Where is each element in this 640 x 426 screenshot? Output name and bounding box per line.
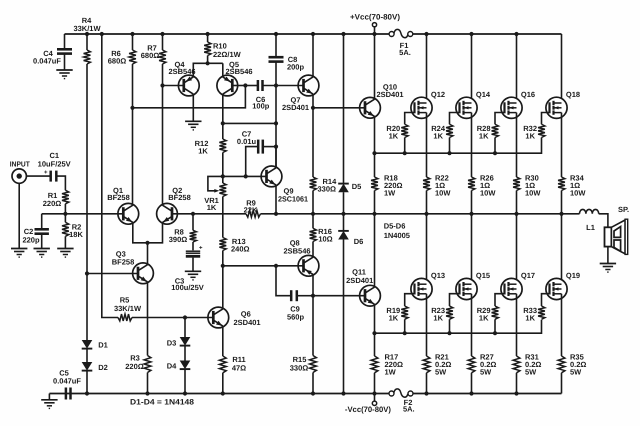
node Q10 base tap: [311, 106, 315, 110]
svg-text:220p: 220p: [22, 236, 40, 245]
resistor R22: [426, 176, 428, 178]
node top rail junctions: [85, 32, 89, 36]
svg-text:BF258: BF258: [112, 257, 135, 266]
svg-text:10Ω: 10Ω: [318, 235, 332, 244]
transistor Q10: [360, 97, 381, 118]
wire R24 to bus: [449, 138, 451, 154]
wire C4 riser: [64, 34, 66, 48]
capacitor C4: [64, 48, 66, 49]
wire R29 to bus: [494, 319, 496, 333]
wire C7 right stub: [263, 146, 276, 148]
resistor R14: [312, 176, 314, 178]
svg-text:+: +: [199, 245, 203, 251]
svg-text:Q16: Q16: [521, 90, 535, 99]
node Q5 base junction: [243, 83, 247, 87]
svg-text:5W: 5W: [435, 367, 447, 376]
svg-text:10W: 10W: [435, 189, 451, 198]
node input divider junction: [63, 212, 67, 216]
wire jack shield down: [18, 183, 20, 248]
MOSFET Q19: [546, 278, 567, 299]
node bottom gate bus taps: [403, 331, 407, 335]
wire VR1 to R13: [222, 197, 224, 238]
capacitor C6: [257, 80, 260, 91]
MOSFET Q14: [456, 97, 477, 118]
wire Q18 gate lead: [542, 113, 550, 125]
node emitter join: [145, 241, 149, 245]
wire Q1 emitter: [133, 222, 148, 242]
transistor Q4: [178, 75, 199, 96]
connector INPUT jack: [12, 169, 26, 183]
svg-text:1K: 1K: [198, 147, 208, 156]
svg-text:BF258: BF258: [168, 193, 191, 202]
wire VR1 wiper: [208, 176, 223, 190]
svg-text:22Ω/1W: 22Ω/1W: [213, 50, 242, 59]
resistor R6: [132, 34, 134, 50]
wire Q14 gate lead: [450, 113, 460, 125]
wire Q2 emitter: [148, 222, 163, 242]
wire Q11 base line: [313, 295, 365, 297]
svg-text:0.047uF: 0.047uF: [53, 376, 81, 385]
node +Vcc terminal: [374, 27, 376, 34]
resistor R3: [147, 282, 149, 356]
svg-text:1K: 1K: [479, 313, 489, 322]
node Q8 base junction: [221, 264, 225, 268]
svg-text:2SD401: 2SD401: [376, 90, 403, 99]
ground speaker ground: [600, 263, 616, 265]
wire Q2 collector: [162, 86, 164, 206]
transistor Q8: [298, 255, 319, 276]
svg-text:D5: D5: [352, 182, 362, 191]
svg-text:Q18: Q18: [566, 90, 580, 99]
node output bus junctions: [274, 212, 278, 216]
diode D2: [82, 362, 93, 371]
svg-text:D5-D6: D5-D6: [384, 222, 406, 231]
svg-text:2SB546: 2SB546: [283, 247, 310, 256]
svg-text:1W: 1W: [385, 367, 397, 376]
svg-text:18K: 18K: [69, 230, 83, 239]
diode D3: [180, 337, 191, 346]
resistor R7: [162, 34, 164, 50]
capacitor C8: [275, 56, 277, 59]
transistor Q11: [360, 285, 381, 306]
MOSFET Q16: [501, 97, 522, 118]
wire D6 column top: [343, 214, 345, 231]
wire Q19 drain: [561, 214, 563, 284]
wire top gate bus: [375, 138, 542, 154]
wire Q19 source: [561, 294, 563, 356]
svg-text:0.047uF: 0.047uF: [33, 57, 61, 66]
MOSFET Q12: [411, 97, 432, 118]
svg-text:Q19: Q19: [566, 271, 580, 280]
node R10 bottom: [206, 61, 210, 65]
node C9 left junction: [274, 264, 278, 268]
wire D2 to bottom rail: [86, 371, 88, 394]
resistor R10: [207, 34, 209, 42]
node top gate bus taps: [403, 151, 407, 155]
ground Q4 ground: [185, 120, 201, 122]
ground R2 ground: [57, 248, 73, 250]
transistor Q5: [217, 75, 238, 96]
wire R28 to bus: [494, 138, 496, 154]
wire Q5 collector mirror line: [133, 86, 246, 108]
node Q9 base junction: [244, 174, 248, 178]
svg-text:5W: 5W: [570, 367, 582, 376]
transistor Q2: [157, 203, 178, 224]
node VR1 top: [221, 174, 225, 178]
node R21 bottom: [424, 391, 428, 395]
svg-text:1K: 1K: [525, 131, 535, 140]
svg-text:33K/1W: 33K/1W: [73, 24, 101, 33]
svg-text:680Ω: 680Ω: [141, 51, 160, 60]
wire C7 left leg: [246, 147, 258, 177]
svg-text:2SD401: 2SD401: [234, 318, 261, 327]
transistor Q3: [133, 263, 154, 284]
node Q11 base junction: [311, 294, 315, 298]
svg-text:680Ω: 680Ω: [108, 57, 127, 66]
wire jack to C1: [26, 175, 50, 177]
svg-text:5A.: 5A.: [403, 405, 415, 414]
svg-text:330Ω: 330Ω: [318, 184, 337, 193]
resistor R11: [222, 355, 224, 357]
MOSFET Q15: [456, 278, 477, 299]
resistor R30: [516, 176, 518, 178]
svg-text:1N4005: 1N4005: [384, 231, 410, 240]
svg-text:2SB546: 2SB546: [168, 67, 195, 76]
resistor R27: [471, 355, 473, 357]
svg-text:1K: 1K: [433, 131, 443, 140]
wire Q5 collector down: [222, 94, 224, 139]
wire output bus right: [261, 213, 580, 215]
svg-text:10W: 10W: [570, 189, 586, 198]
wire Q9 base: [223, 175, 267, 177]
wire Q13 gate lead: [405, 294, 415, 306]
node D3 junction: [183, 315, 187, 319]
svg-text:100u/25V: 100u/25V: [171, 283, 204, 292]
wire Q18 source: [561, 113, 563, 177]
wire Q12 source: [426, 113, 428, 177]
transistor Q1: [118, 203, 139, 224]
node Q7 base junction: [274, 83, 278, 87]
diode D4: [180, 361, 191, 370]
svg-text:Q15: Q15: [476, 271, 490, 280]
wire C8 down bus: [275, 63, 277, 167]
wire Q19 gate lead: [542, 294, 550, 306]
svg-text:200p: 200p: [287, 62, 305, 71]
svg-text:1W: 1W: [384, 189, 396, 198]
resistor R23: [446, 306, 453, 319]
svg-text:1K: 1K: [479, 131, 489, 140]
svg-text:1K: 1K: [525, 313, 535, 322]
capacitor C2: [41, 228, 43, 229]
wire Q13 drain: [426, 214, 428, 284]
svg-text:220Ω: 220Ω: [43, 199, 62, 208]
resistor R4: [86, 34, 88, 50]
node Q3 base junction: [85, 271, 89, 275]
potentiometer VR1: [219, 183, 226, 197]
svg-text:1K: 1K: [389, 131, 399, 140]
wire Q16 gate lead: [495, 113, 505, 125]
inductor L1: [580, 209, 599, 213]
resistor R31: [516, 355, 518, 357]
wire Q9 collector: [275, 147, 277, 168]
wire Q11 collector: [374, 214, 376, 287]
wire D3-D4: [184, 346, 186, 361]
node R12 top tap: [221, 121, 225, 125]
wire output bus: [172, 213, 246, 215]
wire R7 to Q4 base: [163, 85, 184, 87]
svg-text:2SD401: 2SD401: [282, 103, 309, 112]
svg-text:Q17: Q17: [521, 271, 535, 280]
svg-text:390Ω: 390Ω: [169, 235, 188, 244]
resistor R18: [374, 176, 376, 178]
wire R23 to bus: [449, 319, 451, 333]
svg-text:+Vcc(70-80V): +Vcc(70-80V): [350, 12, 400, 21]
node VR1 wiper arrow: [214, 189, 219, 193]
svg-text:SP.: SP.: [618, 205, 629, 214]
wire to C6: [245, 85, 257, 87]
svg-text:D2: D2: [98, 363, 108, 372]
svg-text:220Ω: 220Ω: [125, 362, 144, 371]
wire Q15 drain: [471, 214, 473, 284]
wire R12 to VR1: [222, 153, 224, 184]
wire D3 riser: [184, 318, 186, 338]
resistor R13: [219, 238, 226, 251]
wire C9 left leg: [276, 266, 290, 296]
resistor R20: [401, 124, 408, 137]
wire R5 column: [102, 34, 118, 318]
wire C8 riser: [275, 34, 277, 57]
wire L1 to speaker: [599, 214, 608, 228]
wire node to C2: [42, 213, 66, 215]
svg-text:2SB546: 2SB546: [225, 67, 252, 76]
svg-text:100p: 100p: [252, 101, 270, 110]
wire Q3 base: [87, 273, 138, 275]
fuse F2: [389, 391, 394, 396]
svg-text:560p: 560p: [287, 312, 305, 321]
wire Q8 base: [223, 265, 303, 267]
svg-text:10uF/25V: 10uF/25V: [38, 159, 71, 168]
node R8 tap: [191, 212, 195, 216]
svg-text:D3: D3: [167, 339, 177, 348]
svg-text:1K: 1K: [433, 313, 443, 322]
wire C1 to R1: [56, 176, 65, 190]
wire C6 to Q7 base: [263, 85, 304, 87]
resistor R17: [374, 355, 376, 357]
resistor R16: [312, 214, 314, 229]
svg-text:D4: D4: [167, 362, 177, 371]
svg-text:47Ω: 47Ω: [232, 364, 246, 373]
svg-text:10W: 10W: [525, 189, 541, 198]
node C7 right junction: [274, 145, 278, 149]
diode D6: [338, 230, 349, 232]
wire Q4 emitter up: [193, 63, 223, 77]
wire Q1 collector: [132, 108, 134, 206]
capacitor C1: [49, 171, 52, 182]
node R31 bottom: [514, 391, 518, 395]
ground jack ground: [11, 248, 27, 250]
capacitor C5: [65, 388, 68, 400]
transistor Q9: [261, 166, 282, 187]
terminal -Vcc: [374, 394, 376, 402]
wire Q12 drain: [426, 34, 428, 103]
resistor R2: [64, 214, 66, 223]
node R6-Q1 junction: [130, 106, 134, 110]
node bus tap: [274, 121, 278, 125]
node Q4 base junction: [160, 83, 164, 87]
transistor Q6: [208, 307, 229, 328]
diode D5: [338, 183, 349, 185]
wire Q12 gate lead: [405, 113, 415, 125]
wire R4 column to D1: [86, 274, 88, 341]
wire Q4 collector to ground: [192, 94, 194, 121]
wire Q15 gate lead: [450, 294, 460, 306]
svg-text:1K: 1K: [389, 313, 399, 322]
resistor R33: [538, 306, 545, 319]
resistor R12: [219, 139, 226, 153]
capacitor C9: [290, 290, 293, 301]
wire Q15 source: [471, 294, 473, 356]
wire Q18 drain: [561, 34, 563, 103]
wire R19 to bus: [404, 319, 406, 333]
wire tap to C8 bus: [223, 122, 276, 124]
wire Q5 emitter up: [222, 63, 224, 77]
wire C3 to ground: [192, 258, 194, 272]
wire Q17 drain: [516, 214, 518, 284]
svg-text:0.01u: 0.01u: [237, 137, 257, 146]
node R17 bottom: [372, 391, 376, 395]
resistor R29: [492, 306, 499, 319]
resistor R32: [538, 124, 545, 137]
wire R5 to Q6 base: [132, 317, 213, 319]
wire Q7 collector: [312, 34, 314, 77]
wire D6 to bottom rail: [343, 240, 345, 394]
wire Q10 emitter: [374, 116, 376, 177]
resistor R26: [471, 176, 473, 178]
svg-text:2SD401: 2SD401: [346, 276, 373, 285]
svg-text:D1: D1: [98, 341, 108, 350]
wire D1-D2: [86, 349, 88, 362]
svg-text:BF258: BF258: [107, 193, 130, 202]
resistor R28: [492, 124, 499, 137]
wire bottom gate bus: [375, 320, 542, 334]
resistor R1: [64, 189, 66, 191]
svg-text:Q12: Q12: [431, 90, 445, 99]
svg-text:5W: 5W: [480, 367, 492, 376]
MOSFET Q17: [501, 278, 522, 299]
svg-text:1K: 1K: [207, 203, 217, 212]
node gate bus left: [372, 151, 376, 155]
wire C2 to ground: [41, 235, 43, 249]
wire Q9 emitter: [275, 185, 277, 214]
resistor R5: [118, 314, 132, 321]
resistor R24: [446, 124, 453, 137]
wire to Q3 collector: [147, 243, 149, 264]
wire Q11 emitter: [374, 304, 376, 356]
svg-text:2SC1061: 2SC1061: [278, 195, 308, 204]
wire Q16 drain: [516, 34, 518, 103]
svg-text:240Ω: 240Ω: [231, 245, 250, 254]
wire +Vcc top rail: [65, 33, 392, 35]
resistor R15: [312, 355, 314, 357]
MOSFET Q18: [546, 97, 567, 118]
resistor R34: [561, 176, 563, 178]
wire Q6 emitter: [222, 326, 224, 356]
svg-text:5A.: 5A.: [399, 48, 411, 57]
wire node to Q1 base: [65, 213, 122, 215]
wire Q17 gate lead: [495, 294, 505, 306]
wire Q13 source: [426, 294, 428, 356]
wire C4 to ground: [64, 55, 66, 70]
wire speaker to ground: [607, 247, 609, 264]
wire Q10 collector: [374, 34, 376, 99]
svg-text:+: +: [44, 170, 48, 176]
wire D5 column: [343, 34, 345, 184]
resistor R35: [561, 355, 563, 357]
svg-text:D1-D4 = 1N4148: D1-D4 = 1N4148: [130, 397, 195, 406]
wire D5 to bus: [343, 192, 345, 214]
speaker SP: [605, 227, 612, 246]
resistor R9: [246, 210, 261, 217]
node bottom gate bus left: [372, 331, 376, 335]
wire C2 riser: [41, 214, 43, 229]
wire Q16 source: [516, 113, 518, 177]
svg-text:D6: D6: [354, 237, 364, 246]
ground C2 ground: [34, 248, 50, 250]
MOSFET Q13: [411, 278, 432, 299]
wire Q10 base: [313, 107, 365, 109]
resistor R8: [192, 214, 194, 231]
svg-text:L1: L1: [586, 223, 595, 232]
wire bottom rail: [49, 393, 389, 395]
svg-text:330Ω: 330Ω: [290, 364, 309, 373]
transistor Q7: [298, 75, 319, 96]
wire R13 to Q6 junction: [222, 251, 224, 309]
ground C4 ground: [56, 69, 72, 71]
svg-text:10W: 10W: [480, 189, 496, 198]
ground C5 ground: [41, 399, 57, 401]
resistor R19: [401, 306, 408, 319]
capacitor C3: [186, 250, 200, 252]
svg-text:Q14: Q14: [476, 90, 491, 99]
wire Q7 emitter: [312, 94, 314, 177]
svg-text:INPUT: INPUT: [10, 159, 30, 168]
wire Q5 base: [232, 85, 245, 87]
wire D4 to bottom rail: [184, 369, 186, 393]
ground C3 ground: [185, 270, 201, 272]
resistor R21: [426, 355, 428, 357]
svg-text:33K/1W: 33K/1W: [114, 304, 142, 313]
wire R20 to bus: [404, 138, 406, 154]
diode D1: [82, 340, 93, 349]
svg-text:Q13: Q13: [431, 271, 445, 280]
svg-text:5W: 5W: [525, 367, 537, 376]
wire Q14 drain: [471, 34, 473, 103]
capacitor C7: [257, 140, 260, 154]
svg-text:-Vcc(70-80V): -Vcc(70-80V): [345, 405, 391, 414]
fuse F1: [389, 32, 394, 37]
wire C5 ground leg: [48, 394, 50, 400]
wire C9 to junction: [298, 295, 313, 297]
wire Q17 source: [516, 294, 518, 356]
wire Q8 collector: [312, 274, 314, 355]
wire Q14 source: [471, 113, 473, 177]
node R27 bottom: [469, 391, 473, 395]
